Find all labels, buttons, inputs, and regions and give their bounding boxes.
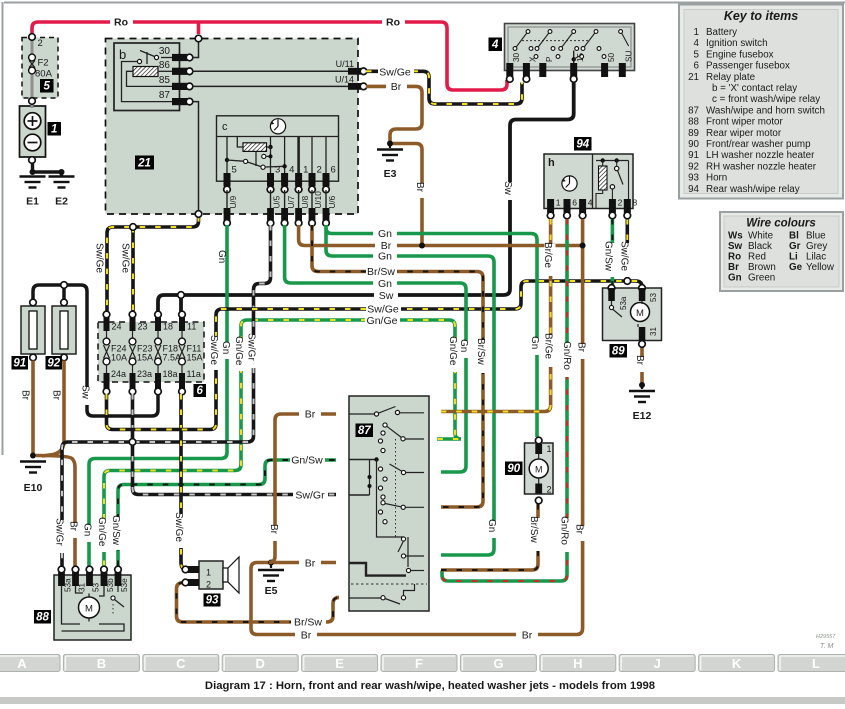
svg-text:87: 87 — [159, 90, 171, 101]
svg-text:Sw/Ge: Sw/Ge — [379, 67, 411, 79]
svg-text:94: 94 — [576, 139, 589, 151]
svg-text:Battery: Battery — [706, 27, 737, 38]
svg-text:Br: Br — [20, 390, 31, 401]
svg-text:Gn/Sw: Gn/Sw — [603, 241, 614, 272]
svg-text:2: 2 — [618, 198, 623, 208]
svg-text:8: 8 — [633, 198, 638, 208]
svg-text:Sw: Sw — [80, 385, 91, 400]
svg-text:Br: Br — [634, 355, 645, 366]
svg-text:92: 92 — [47, 358, 60, 370]
svg-text:c = front wash/wipe relay: c = front wash/wipe relay — [712, 94, 820, 105]
svg-text:Br: Br — [305, 558, 316, 570]
svg-text:LH washer nozzle heater: LH washer nozzle heater — [706, 150, 815, 161]
svg-text:1: 1 — [547, 444, 552, 454]
svg-text:Br/Ge: Br/Ge — [543, 333, 554, 360]
svg-text:Sw/Ge: Sw/Ge — [94, 243, 105, 273]
svg-text:Br/Sw: Br/Sw — [528, 516, 539, 543]
svg-text:Ro: Ro — [386, 17, 400, 29]
svg-text:53a: 53a — [619, 296, 628, 310]
svg-text:88: 88 — [36, 612, 49, 624]
svg-text:Relay plate: Relay plate — [706, 72, 756, 83]
svg-text:Gn: Gn — [486, 519, 497, 532]
svg-text:Br: Br — [576, 342, 587, 353]
svg-text:Gn: Gn — [82, 523, 93, 536]
svg-text:Bl: Bl — [789, 231, 799, 242]
svg-text:Li: Li — [789, 252, 798, 263]
svg-text:Sw/Ge: Sw/Ge — [619, 241, 630, 271]
svg-text:1: 1 — [206, 568, 211, 578]
svg-text:90: 90 — [688, 139, 699, 150]
svg-text:93: 93 — [688, 173, 699, 184]
svg-text:E: E — [335, 656, 344, 671]
svg-text:A: A — [17, 656, 27, 671]
svg-text:11: 11 — [187, 322, 196, 332]
svg-text:86: 86 — [159, 60, 171, 71]
svg-text:Gn: Gn — [216, 250, 227, 263]
svg-text:21: 21 — [688, 72, 699, 83]
svg-text:53: 53 — [649, 293, 658, 302]
svg-text:Yellow: Yellow — [806, 262, 835, 273]
svg-text:4: 4 — [588, 198, 593, 208]
svg-text:Gr: Gr — [789, 241, 801, 252]
svg-text:2: 2 — [317, 165, 322, 176]
svg-text:Sw/Gr: Sw/Gr — [54, 518, 65, 546]
svg-text:50: 50 — [607, 52, 616, 62]
svg-text:Key to items: Key to items — [724, 9, 798, 23]
svg-text:Gn/Ge: Gn/Ge — [447, 336, 458, 366]
svg-text:Horn: Horn — [706, 173, 727, 184]
svg-text:Gn/Ge: Gn/Ge — [233, 336, 244, 366]
svg-text:Sw: Sw — [728, 241, 743, 252]
svg-text:Grey: Grey — [806, 241, 827, 252]
svg-text:24: 24 — [112, 322, 122, 332]
svg-text:31: 31 — [78, 582, 87, 592]
svg-text:Gn/Ro: Gn/Ro — [561, 341, 572, 370]
svg-text:U/11: U/11 — [336, 59, 354, 69]
svg-text:Passenger fusebox: Passenger fusebox — [706, 61, 790, 72]
svg-text:4: 4 — [289, 165, 294, 176]
svg-text:h: h — [548, 157, 555, 169]
svg-text:G: G — [493, 656, 503, 671]
svg-text:Br/Sw: Br/Sw — [294, 617, 322, 629]
svg-text:Sw/Gr: Sw/Gr — [246, 333, 257, 361]
svg-text:Red: Red — [748, 252, 766, 263]
svg-text:1: 1 — [694, 27, 699, 38]
svg-text:E1: E1 — [26, 196, 39, 208]
svg-text:23a: 23a — [137, 369, 152, 379]
svg-text:Gn: Gn — [378, 228, 392, 240]
svg-text:Br: Br — [305, 409, 316, 421]
svg-text:Sw/Ge: Sw/Ge — [367, 304, 399, 316]
svg-text:2: 2 — [206, 580, 211, 590]
svg-text:Br: Br — [522, 629, 533, 641]
svg-text:F2: F2 — [38, 58, 49, 69]
svg-text:87: 87 — [358, 425, 371, 437]
svg-text:H: H — [573, 656, 582, 671]
svg-text:Blue: Blue — [806, 231, 826, 242]
svg-text:53a: 53a — [64, 578, 73, 592]
svg-text:Gn: Gn — [378, 278, 392, 290]
svg-text:80A: 80A — [35, 69, 53, 80]
svg-text:Br: Br — [414, 182, 425, 193]
svg-text:24a: 24a — [111, 369, 126, 379]
svg-text:Rear wiper motor: Rear wiper motor — [706, 128, 782, 139]
svg-text:Gn/Sw: Gn/Sw — [110, 515, 121, 546]
svg-text:E5: E5 — [265, 585, 278, 597]
svg-text:E12: E12 — [633, 410, 652, 422]
svg-text:Br/Ge: Br/Ge — [542, 242, 553, 269]
svg-text:D: D — [256, 656, 265, 671]
svg-text:E10: E10 — [24, 482, 43, 494]
svg-text:30: 30 — [512, 52, 521, 62]
svg-text:Br: Br — [574, 524, 585, 535]
svg-text:2: 2 — [38, 38, 43, 49]
svg-text:Br/Sw: Br/Sw — [367, 266, 395, 278]
svg-text:K: K — [732, 656, 742, 671]
svg-text:Gn: Gn — [378, 251, 392, 263]
svg-text:Gn: Gn — [728, 273, 742, 284]
svg-text:Br: Br — [391, 81, 402, 93]
svg-text:H29557: H29557 — [816, 634, 836, 640]
svg-text:Gn/Ro: Gn/Ro — [559, 516, 570, 545]
svg-text:53e: 53e — [120, 578, 129, 592]
svg-text:T. M: T. M — [820, 643, 834, 650]
svg-text:Br: Br — [51, 390, 62, 401]
svg-text:1: 1 — [303, 165, 308, 176]
svg-text:Sw/Ge: Sw/Ge — [173, 512, 184, 542]
svg-text:U/8: U/8 — [301, 195, 310, 208]
svg-text:91: 91 — [688, 150, 699, 161]
svg-text:Front wiper motor: Front wiper motor — [706, 117, 784, 128]
svg-text:18a: 18a — [163, 369, 178, 379]
svg-text:Sw: Sw — [379, 290, 394, 302]
svg-text:94: 94 — [688, 184, 699, 195]
svg-text:31: 31 — [649, 327, 658, 336]
svg-text:M: M — [535, 465, 543, 475]
svg-text:c: c — [222, 121, 228, 133]
svg-text:6: 6 — [694, 61, 700, 72]
svg-text:Sw: Sw — [502, 181, 513, 196]
svg-text:Gn: Gn — [529, 336, 540, 349]
svg-text:Br: Br — [268, 524, 279, 535]
svg-text:90: 90 — [507, 463, 520, 475]
svg-text:Br: Br — [68, 521, 79, 532]
svg-text:Gn/Ge: Gn/Ge — [96, 517, 107, 547]
svg-text:Br: Br — [301, 629, 312, 641]
svg-text:P: P — [545, 56, 554, 62]
svg-text:Sw/Ge: Sw/Ge — [208, 335, 219, 365]
svg-text:Sw/Gr: Sw/Gr — [295, 490, 325, 502]
svg-text:Ro: Ro — [728, 252, 741, 263]
svg-text:Wire colours: Wire colours — [746, 218, 816, 230]
svg-text:89: 89 — [688, 128, 699, 139]
svg-text:M: M — [85, 604, 93, 615]
svg-text:Diagram 17 : Horn, front and r: Diagram 17 : Horn, front and rear wash/w… — [205, 680, 655, 692]
svg-text:Ws: Ws — [728, 231, 743, 242]
svg-text:L: L — [812, 656, 820, 671]
svg-text:Front/rear washer pump: Front/rear washer pump — [706, 139, 811, 150]
svg-text:92: 92 — [688, 161, 699, 172]
svg-text:53: 53 — [92, 582, 101, 592]
svg-text:91: 91 — [13, 358, 26, 370]
svg-text:2: 2 — [547, 485, 552, 495]
svg-text:C: C — [176, 656, 186, 671]
svg-text:Black: Black — [748, 241, 772, 252]
svg-text:23: 23 — [138, 322, 148, 332]
svg-text:B: B — [97, 656, 106, 671]
svg-text:6: 6 — [331, 165, 336, 176]
svg-text:1: 1 — [556, 198, 561, 208]
svg-text:Green: Green — [748, 273, 775, 284]
svg-text:15A: 15A — [137, 353, 153, 363]
svg-text:11a: 11a — [187, 369, 201, 379]
svg-text:U/5: U/5 — [273, 195, 282, 208]
svg-text:Wash/wipe and horn switch: Wash/wipe and horn switch — [706, 105, 825, 116]
svg-text:5: 5 — [694, 49, 700, 60]
svg-text:Rear wash/wipe relay: Rear wash/wipe relay — [706, 184, 800, 195]
svg-text:4: 4 — [694, 38, 700, 49]
svg-text:U/10: U/10 — [314, 191, 323, 209]
svg-text:Gn/Ge: Gn/Ge — [367, 315, 398, 327]
svg-text:6: 6 — [572, 198, 577, 208]
svg-text:5: 5 — [232, 165, 237, 176]
svg-text:21: 21 — [137, 158, 151, 170]
svg-text:Lilac: Lilac — [806, 252, 826, 263]
svg-text:87: 87 — [688, 105, 699, 116]
svg-text:Gn/Sw: Gn/Sw — [291, 455, 323, 467]
svg-text:93: 93 — [206, 595, 219, 607]
svg-text:E2: E2 — [55, 196, 68, 208]
svg-text:10A: 10A — [111, 353, 127, 363]
svg-text:1: 1 — [51, 124, 57, 136]
svg-text:RH washer nozzle heater: RH washer nozzle heater — [706, 161, 817, 172]
svg-text:Ro: Ro — [114, 17, 128, 29]
svg-text:30: 30 — [159, 46, 171, 57]
svg-text:U/6: U/6 — [328, 195, 337, 208]
svg-text:Gn: Gn — [458, 339, 469, 352]
svg-text:b: b — [119, 47, 126, 62]
svg-text:M: M — [636, 308, 644, 319]
svg-text:Br/Sw: Br/Sw — [475, 338, 486, 365]
svg-text:J: J — [654, 656, 661, 671]
svg-text:SU: SU — [625, 51, 634, 62]
svg-text:E3: E3 — [384, 168, 397, 180]
svg-text:b = 'X' contact relay: b = 'X' contact relay — [712, 83, 797, 94]
svg-text:Engine fusebox: Engine fusebox — [706, 49, 774, 60]
svg-text:18: 18 — [163, 322, 173, 332]
svg-text:Ge: Ge — [789, 262, 803, 273]
svg-text:U/9: U/9 — [229, 195, 238, 208]
svg-text:Ignition switch: Ignition switch — [706, 38, 768, 49]
svg-text:U/7: U/7 — [287, 195, 296, 208]
svg-text:Br: Br — [728, 262, 739, 273]
svg-text:4: 4 — [491, 39, 499, 51]
svg-text:53b: 53b — [106, 578, 115, 592]
svg-text:15A: 15A — [187, 353, 203, 363]
svg-text:85: 85 — [159, 75, 171, 86]
svg-text:U/14: U/14 — [335, 74, 354, 84]
svg-text:Brown: Brown — [748, 262, 776, 273]
svg-text:White: White — [748, 231, 774, 242]
svg-text:5: 5 — [44, 81, 51, 93]
svg-text:89: 89 — [612, 346, 625, 358]
svg-text:88: 88 — [688, 117, 699, 128]
svg-text:6: 6 — [197, 385, 204, 397]
svg-text:F: F — [415, 656, 423, 671]
svg-text:Sw/Ge: Sw/Ge — [120, 243, 131, 273]
